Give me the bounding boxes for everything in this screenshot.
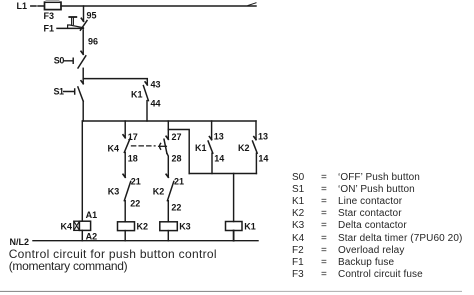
svg-text:22: 22 — [130, 199, 140, 209]
svg-text:13: 13 — [258, 132, 268, 142]
svg-text:K1: K1 — [131, 90, 143, 100]
wire branch2 contact stub — [167, 130, 169, 140]
timed action arrow — [159, 143, 167, 149]
wire K2 coil to bottom rail — [124, 231, 126, 241]
faint scan rule at bottom — [0, 290, 240, 292]
F1 label and actuator wire — [44, 24, 84, 34]
wire vertical from rail to F1 contact — [83, 6, 85, 21]
svg-text:A1: A1 — [86, 210, 98, 220]
arrowhead terminal 95 — [81, 18, 83, 21]
svg-text:21: 21 — [174, 177, 184, 187]
svg-text:43: 43 — [151, 80, 161, 90]
contact F1 95-96 moving blade — [80, 21, 87, 31]
svg-text:14: 14 — [214, 154, 224, 164]
contactor coil K1 — [226, 222, 256, 232]
svg-text:44: 44 — [151, 99, 161, 109]
wire left vertical rail to K4 coil — [81, 121, 83, 221]
contact K4 17-18 moving blade — [124, 138, 130, 152]
svg-text:K4: K4 — [61, 222, 73, 232]
wire 28 to 21 (branch2) — [167, 153, 168, 177]
wire branch2 rail stub — [167, 121, 169, 130]
svg-text:14: 14 — [258, 154, 268, 164]
node L1 — [17, 1, 28, 11]
svg-text:95: 95 — [87, 11, 97, 21]
svg-text:28: 28 — [172, 154, 182, 164]
legend list — [0, 0, 474, 1]
svg-text:K3: K3 — [108, 187, 120, 197]
wire 18 to 21 (branch1) — [124, 152, 126, 177]
arrowhead terminal 13 K2 — [254, 137, 256, 140]
mechanical link dashed wire — [132, 145, 156, 147]
svg-text:K4: K4 — [108, 144, 120, 154]
caption — [9, 248, 217, 274]
wire K4 coil to bottom rail — [81, 230, 83, 240]
svg-text:N/L2: N/L2 — [10, 237, 30, 247]
arrowhead terminal S1 top — [81, 81, 83, 84]
wire 14 to bottom junction (branch4) — [255, 153, 257, 173]
wire 14 to bottom junction (branch3) — [211, 153, 213, 173]
wire K1 coil to bottom rail — [233, 231, 235, 241]
wire 22 to K3 coil — [167, 201, 169, 222]
arrowhead terminal 27 — [166, 136, 168, 139]
wire top rail — [61, 5, 256, 7]
contact K1 13-14 moving blade (NO) — [208, 141, 213, 153]
svg-text:K1: K1 — [244, 222, 256, 232]
timer coil K4 — [61, 221, 91, 231]
contactor coil K3 — [160, 222, 191, 232]
svg-text:S0: S0 — [54, 56, 65, 66]
wire top rail end hook — [248, 3, 256, 6]
svg-text:22: 22 — [171, 203, 181, 213]
svg-text:K3: K3 — [179, 222, 191, 232]
wire L1 dash-dot lead-in — [31, 5, 44, 7]
contact S0 moving blade (NC) — [78, 56, 86, 68]
wire 22 to K2 coil — [124, 201, 126, 222]
S0 label and actuator — [54, 56, 73, 66]
fuse F3 — [44, 0, 62, 21]
wire S1 bottom to rail junction — [82, 101, 84, 121]
svg-text:18: 18 — [128, 154, 138, 164]
svg-text:S1: S1 — [54, 87, 65, 97]
wire branch3 rail to 13 — [211, 121, 213, 140]
svg-text:27: 27 — [172, 132, 182, 142]
wire 96 to S0 — [82, 30, 84, 54]
wire branch to K1 latch contact — [83, 79, 147, 85]
svg-text:L1: L1 — [17, 1, 28, 11]
contactor coil K2 — [118, 222, 149, 232]
wire branch1 rail to 17 — [124, 121, 126, 138]
S1 label and actuator — [54, 87, 75, 97]
wire bottom junction line — [189, 173, 256, 175]
contact S1 moving blade (NO) — [78, 87, 83, 101]
wire S0 bottom to junction — [82, 68, 84, 83]
contact K2 21-22 moving blade (NC) — [167, 181, 173, 200]
contact K2 13-14 moving blade (NO) — [253, 141, 258, 153]
svg-text:K2: K2 — [238, 143, 250, 153]
arrowhead terminal 21 branch2 — [166, 174, 168, 177]
wire bottom rail — [33, 240, 258, 242]
arrowhead terminal S0 top — [81, 51, 83, 54]
wire branch2 bypass top — [168, 130, 189, 174]
contact K1 43-44 moving blade (NO) — [143, 86, 148, 101]
svg-text:F3: F3 — [44, 11, 55, 21]
wire junction to K1 coil — [233, 174, 235, 222]
contact K3 21-22 moving blade (NC) — [124, 181, 130, 200]
svg-text:K2: K2 — [153, 187, 165, 197]
svg-text:96: 96 — [88, 37, 98, 47]
svg-text:13: 13 — [214, 132, 224, 142]
wire distribution rail — [83, 120, 257, 122]
arrowhead terminal 21 branch1 — [123, 174, 125, 177]
svg-text:K1: K1 — [195, 143, 207, 153]
arrowhead terminal 17 — [123, 135, 125, 138]
svg-text:F1: F1 — [44, 24, 55, 34]
wire K3 coil to bottom rail — [167, 231, 169, 241]
wire 44 to rail — [146, 101, 148, 121]
overload trip symbol F1 (T bar, stem, wedge) — [68, 17, 84, 28]
wire branch4 rail to 13 — [255, 121, 257, 140]
arrowhead terminal 13 K1 — [209, 137, 211, 140]
arrowhead terminal 43 — [145, 82, 147, 85]
svg-text:K2: K2 — [137, 222, 149, 232]
contact K4 27-28 moving blade — [164, 139, 167, 153]
svg-text:21: 21 — [131, 177, 141, 187]
